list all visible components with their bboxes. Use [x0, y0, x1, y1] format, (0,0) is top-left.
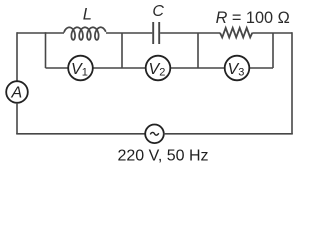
inductor L [64, 27, 106, 40]
wire node vertical x=273 [272, 33, 274, 68]
wire node vertical x=122 [121, 33, 123, 68]
resistor R1 [220, 28, 252, 38]
wire voltmeter rail [46, 67, 274, 69]
svg-text:220 V, 50 Hz: 220 V, 50 Hz [118, 147, 209, 164]
svg-text:C: C [152, 3, 164, 20]
wire bottom right segment [163, 133, 292, 135]
voltmeter V1 [68, 56, 93, 81]
capacitor C [153, 22, 159, 44]
svg-text:3: 3 [238, 67, 244, 79]
voltmeter V3 [225, 56, 250, 81]
wire top rail right segment [252, 32, 292, 34]
AC source [145, 125, 164, 144]
svg-text:1: 1 [82, 67, 88, 79]
svg-text:R = 100 Ω: R = 100 Ω [216, 9, 290, 27]
wire node vertical x=45.5 [45, 32, 47, 68]
svg-text:A: A [11, 85, 23, 102]
wire node vertical x=198 [197, 33, 199, 68]
wire top rail left segment [17, 32, 64, 34]
wire bottom left segment [16, 133, 145, 135]
wire top rail between C and R [160, 32, 220, 34]
svg-text:L: L [83, 5, 92, 23]
svg-text:2: 2 [159, 67, 165, 79]
wire right side [291, 32, 293, 134]
source tilde [150, 132, 158, 135]
voltmeter V2 [146, 56, 171, 81]
wire left side lower [16, 103, 18, 134]
ammeter A [6, 81, 28, 103]
wire left side upper [16, 32, 18, 81]
wire top rail between L and C [106, 32, 152, 34]
